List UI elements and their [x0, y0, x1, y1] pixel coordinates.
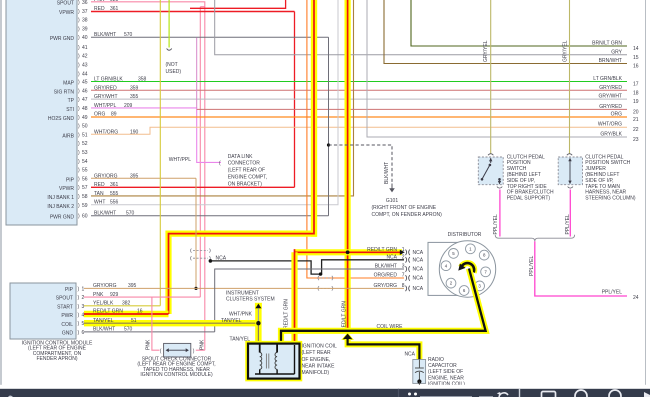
svg-text:VPWR: VPWR — [59, 186, 74, 192]
svg-text:GND: GND — [62, 331, 74, 337]
label ignition control module — [22, 341, 93, 363]
ECM pin 48 STI — [66, 103, 132, 113]
svg-text:52: 52 — [82, 141, 88, 147]
highlighted RED/LT GRN vertical A — [169, 0, 315, 314]
wire WHT/PNK vertical (highlighted) — [229, 308, 258, 323]
svg-text:MAP: MAP — [63, 81, 75, 87]
junction BLK/WHT at G101 tap — [327, 143, 330, 146]
svg-text:58: 58 — [82, 194, 88, 200]
ECM pin 54 — [78, 159, 88, 165]
svg-text:GRY/WHT: GRY/WHT — [598, 94, 622, 100]
svg-text:16: 16 — [137, 308, 143, 314]
clutch pedal position switch jumper box — [558, 157, 582, 185]
svg-text:GRY/YEL: GRY/YEL — [483, 40, 489, 62]
wire ORG 89 to pin 21 — [91, 116, 627, 118]
svg-text:(NOT: (NOT — [166, 62, 178, 68]
svg-text:(RIGHT FRONT OF ENGINE: (RIGHT FRONT OF ENGINE — [372, 205, 437, 211]
svg-text:51: 51 — [82, 132, 88, 138]
svg-text:ORG: ORG — [611, 112, 623, 118]
highlighted RED/LT GRN vertical B — [345, 0, 351, 333]
svg-text:CAPACITOR: CAPACITOR — [428, 363, 457, 369]
wire GRY/YEL right (clutch jumper) — [563, 0, 570, 154]
wire BLK/WHT ICM pin 6 — [84, 331, 215, 333]
right connector pin 24 — [633, 295, 639, 301]
junction GRY/ORG at ICM pin 1 — [194, 287, 197, 290]
label SPOUT check connector — [137, 356, 215, 378]
svg-text:SPOUT: SPOUT — [57, 1, 74, 7]
svg-text:53: 53 — [82, 150, 88, 156]
ECM pin 58 INJ BANK 1 — [47, 191, 118, 201]
svg-text:NCA: NCA — [413, 286, 424, 292]
wire WHT/ORG 190 to pin 22 — [91, 127, 627, 134]
right connector pin 18 GRY/RED — [599, 85, 638, 97]
svg-text:49: 49 — [82, 115, 88, 121]
svg-text:TP: TP — [68, 98, 75, 104]
ICM pin 3 START — [57, 301, 130, 311]
svg-text:PIP: PIP — [66, 177, 75, 183]
svg-text:(LEFT REAR OF: (LEFT REAR OF — [228, 168, 265, 174]
ECM pin 40 PWR GND — [50, 32, 133, 42]
svg-text:GRY/BLK: GRY/BLK — [600, 132, 622, 138]
ignition control module block — [10, 283, 76, 339]
svg-text:START: START — [57, 304, 73, 310]
coil wire connection arrow — [343, 334, 353, 340]
label DISTRIBUTOR — [448, 232, 482, 238]
wire RED 361 pin37 — [91, 0, 295, 187]
svg-text:15: 15 — [633, 55, 639, 61]
right connector pin 17 LT GRN/BLK — [593, 76, 638, 88]
svg-text:SPOUT: SPOUT — [56, 296, 73, 302]
wire WHT/PPL 209 to data link connector — [91, 38, 221, 163]
svg-text:COIL: COIL — [61, 322, 73, 328]
ICM pin 5 COIL (highlighted) — [61, 321, 84, 328]
ECM pin 38 — [78, 18, 88, 24]
data link connector label — [228, 154, 267, 188]
ECM pin 60 PWR GND — [50, 211, 135, 221]
clutch switch top lead-in arc — [488, 154, 493, 156]
wire PNK 929 from pin 36 — [91, 0, 205, 350]
svg-text:7: 7 — [402, 273, 405, 279]
wire ORG/RED vertical to distributor pin 7 — [307, 0, 404, 278]
wire GRY jog from pin40 line to pin 15 — [215, 0, 627, 55]
svg-text:38: 38 — [82, 18, 88, 24]
ignition coil (highlighted) — [248, 344, 300, 379]
ECM pin 46 SIG RTN — [54, 85, 139, 95]
svg-text:57: 57 — [82, 185, 88, 191]
left window edge line — [0, 0, 2, 386]
svg-text:51: 51 — [131, 318, 137, 324]
svg-text:GRY/ORG: GRY/ORG — [373, 283, 397, 289]
right connector pin 21 ORG — [611, 112, 639, 124]
right connector pin 15 GRY — [611, 49, 639, 61]
svg-text:BRN/LT GRN: BRN/LT GRN — [592, 41, 622, 47]
wire GRY/ORG to distributor pin 8 — [196, 287, 404, 289]
wire GRY/ORG ICM pin 1 — [84, 287, 196, 289]
wire PPL/YEL from jumper — [565, 190, 571, 237]
svg-text:929: 929 — [110, 0, 119, 3]
SPOUT check connector left lead — [146, 297, 162, 355]
svg-text:40: 40 — [82, 35, 88, 41]
ECM pin 59 INJ BANK 2 — [47, 200, 118, 210]
svg-text:42: 42 — [82, 54, 88, 60]
inline connector on PNK/GRY ORG verticals — [190, 249, 210, 261]
svg-text:41: 41 — [82, 45, 88, 51]
jumper top lead-in arc — [567, 154, 572, 156]
svg-text:VPWR: VPWR — [59, 10, 74, 16]
svg-text:INJ BANK 1: INJ BANK 1 — [47, 195, 74, 201]
svg-text:22: 22 — [633, 127, 639, 133]
wire GRY/WHT 355 to pin 19 — [91, 98, 627, 100]
svg-text:INJ BANK 2: INJ BANK 2 — [47, 204, 74, 210]
wire GRY/YEL left (clutch switch) — [483, 0, 491, 154]
right diagram edge line — [645, 0, 647, 386]
ICM pin 1 PIP — [65, 283, 137, 293]
wire WHT 556 pin 59 — [91, 0, 338, 205]
svg-text:(LEFT SIDE OF: (LEFT SIDE OF — [428, 369, 463, 375]
svg-text:ON BRACKET): ON BRACKET) — [228, 181, 263, 187]
svg-text:37: 37 — [82, 9, 88, 15]
ground G101 symbol — [389, 184, 395, 193]
svg-text:24: 24 — [633, 295, 639, 301]
svg-text:17: 17 — [633, 82, 639, 88]
svg-text:1: 1 — [82, 286, 85, 292]
instrument cluster arrow (highlighted) — [255, 303, 262, 309]
svg-text:21: 21 — [633, 117, 639, 123]
brace merging PPL/YEL wires — [495, 235, 574, 242]
ECM pin 57 VPWR — [59, 182, 119, 192]
svg-text:RADIO: RADIO — [428, 357, 444, 363]
svg-text:NCA: NCA — [413, 250, 424, 256]
svg-text:IGNITION CONTROL MODULE): IGNITION CONTROL MODULE) — [140, 372, 213, 378]
wire PNK branch vertical — [200, 7, 205, 297]
wire TAN 555 pin 58 — [91, 0, 354, 196]
wire RED 361 pin 57 — [91, 186, 295, 188]
wire GRY/RED 359 to pin 18 — [91, 89, 627, 91]
ECM pin 53 — [78, 150, 88, 156]
svg-text:DISTRIBUTOR: DISTRIBUTOR — [448, 232, 482, 238]
data link connector lead-in — [169, 157, 221, 167]
wire BLK/WHT 570 pin40 — [91, 36, 329, 38]
junction TAN/YEL — [256, 321, 260, 325]
svg-text:54: 54 — [82, 159, 88, 165]
distributor connector brackets and NCA labels — [406, 250, 410, 292]
svg-text:PWR: PWR — [61, 313, 73, 319]
wire BLK/WHT 570 pin 60 — [91, 215, 329, 217]
SPOUT check connector right lead — [193, 339, 206, 355]
wire YEL/BLK vertical (start circuit) — [159, 0, 161, 306]
svg-text:2: 2 — [402, 254, 405, 260]
svg-text:PWR GND: PWR GND — [50, 215, 75, 221]
wire GRY/BLK vertical to pin 23 — [367, 0, 627, 137]
svg-text:47: 47 — [82, 97, 88, 103]
svg-text:3: 3 — [402, 264, 405, 270]
junction RED/LT GRN at vertical B — [346, 250, 350, 254]
ECM pin 47 TP — [68, 94, 139, 104]
svg-text:PNK: PNK — [146, 339, 152, 350]
svg-text:20: 20 — [633, 109, 639, 115]
svg-text:ORG/RED: ORG/RED — [374, 273, 398, 279]
label instrument clusters system — [226, 291, 275, 303]
wire TAN/YEL 51 ICM pin 5 highlighted — [84, 318, 258, 324]
right connector pin 22 WHT/ORG — [598, 122, 639, 134]
clutch pedal position switch box — [478, 157, 503, 185]
wire YEL/BLK ICM pin 3 — [84, 305, 160, 307]
svg-text:GRY/YEL: GRY/YEL — [563, 40, 569, 62]
clutch switch symbol — [481, 158, 502, 185]
ICM pin 4 PWR (highlighted) — [61, 313, 84, 320]
wire GRY/RED to pin 20 — [197, 108, 627, 110]
svg-text:NCA: NCA — [413, 267, 424, 273]
svg-text:BRN/WHT: BRN/WHT — [599, 58, 622, 64]
dashed BLK/WHT to G101 — [329, 145, 393, 184]
svg-text:NCA: NCA — [413, 258, 424, 264]
coil wire diagonal (highlighted) — [281, 269, 486, 345]
wire LT GRN/BLK 358 to pin 17 — [91, 81, 627, 83]
svg-text:WHT/PNK: WHT/PNK — [229, 312, 253, 318]
svg-text:TAN/YEL: TAN/YEL — [221, 318, 242, 324]
wire PPL/YEL from clutch switch — [493, 190, 500, 237]
label RED/LT GRN vertical B — [342, 301, 348, 331]
distributor body — [428, 241, 496, 297]
ECM pin 55 — [78, 168, 88, 174]
svg-text:8: 8 — [402, 283, 405, 289]
svg-text:COIL WIRE: COIL WIRE — [377, 324, 404, 330]
svg-text:14: 14 — [633, 46, 639, 52]
ECM pin 49 HO2S GND — [48, 112, 117, 122]
svg-text:PPL/YEL: PPL/YEL — [565, 214, 571, 235]
svg-text:WHT/ORG: WHT/ORG — [598, 122, 622, 128]
svg-text:PNK: PNK — [199, 339, 205, 350]
svg-text:39: 39 — [82, 26, 88, 32]
wire LT GRN (not used) — [167, 0, 172, 50]
ECM pin 52 — [78, 141, 88, 147]
svg-text:G101: G101 — [386, 198, 398, 204]
svg-text:RED/LT GRN: RED/LT GRN — [93, 308, 123, 314]
wire GRY/ORG 395 pin 56 — [91, 177, 196, 179]
svg-text:FENDER APRON): FENDER APRON) — [36, 356, 77, 362]
label NCA radio capacitor — [404, 352, 415, 358]
ECM pin 41 — [78, 45, 88, 51]
svg-text:PNK: PNK — [94, 0, 105, 3]
ECM pin 44 — [78, 71, 88, 77]
SPOUT check connector body — [164, 343, 191, 357]
svg-text:MANIFOLD): MANIFOLD) — [302, 370, 330, 376]
ECM pin 50 — [78, 124, 88, 130]
ignition coil windings — [255, 345, 295, 375]
right connector pin 19 GRY/WHT — [598, 94, 638, 106]
svg-text:USED): USED) — [166, 69, 182, 75]
svg-text:16: 16 — [633, 64, 639, 70]
svg-text:PEDAL SUPPORT): PEDAL SUPPORT) — [507, 196, 551, 202]
highlighted RED/LT GRN vertical C to ignition coil — [284, 249, 295, 343]
svg-text:PPL/YEL: PPL/YEL — [493, 214, 499, 235]
svg-text:PWR GND: PWR GND — [50, 36, 75, 42]
right connector pin 23 GRY/BLK — [600, 132, 638, 144]
wire NCA black to distributor pin 2 — [210, 260, 404, 276]
svg-text:48: 48 — [82, 106, 88, 112]
svg-text:18: 18 — [633, 90, 639, 96]
label TAN/YEL at junction — [221, 318, 242, 324]
radio capacitor — [413, 360, 426, 387]
jumper bottom lead-out arc — [568, 187, 573, 189]
svg-text:HO2S GND: HO2S GND — [48, 116, 75, 122]
svg-text:56: 56 — [82, 176, 88, 182]
ECM pin 43 — [78, 63, 88, 69]
svg-text:STEERING COLUMN): STEERING COLUMN) — [585, 196, 636, 202]
svg-text:NCA: NCA — [404, 352, 415, 358]
highlighted RED/LT GRN horizontal to distributor pin 1 — [295, 250, 405, 255]
svg-text:55: 55 — [82, 168, 88, 174]
label (NOT USED) — [166, 62, 182, 75]
label COIL WIRE — [377, 324, 404, 330]
svg-text:DATA LINK: DATA LINK — [228, 154, 253, 160]
label G101 — [372, 198, 443, 218]
svg-text:23: 23 — [633, 137, 639, 143]
wire TAN/YEL down to ignition coil (highlighted) — [230, 323, 259, 343]
svg-text:19: 19 — [633, 99, 639, 105]
svg-text:SIG RTN: SIG RTN — [54, 89, 75, 95]
svg-text:ENGINE COMPT,: ENGINE COMPT, — [228, 175, 267, 181]
svg-text:46: 46 — [82, 88, 88, 94]
label RADIO CAPACITOR — [428, 357, 465, 388]
svg-text:ENGINE, NEAR: ENGINE, NEAR — [428, 375, 464, 381]
svg-text:COMPT, ON FENDER APRON): COMPT, ON FENDER APRON) — [372, 212, 443, 218]
svg-text:BLK/WHT: BLK/WHT — [375, 264, 397, 270]
svg-text:OF ENGINE,: OF ENGINE, — [302, 357, 331, 363]
wire BLK/WHT ground bus vertical — [328, 37, 330, 215]
svg-text:PPL/YEL: PPL/YEL — [529, 255, 535, 276]
svg-text:WHT/PPL: WHT/PPL — [169, 157, 191, 163]
wire NCA to radio capacitor (highlighted) — [348, 339, 420, 360]
svg-text:RED/LT GRN: RED/LT GRN — [342, 301, 348, 331]
wire BRN/WHT to pin 16 — [384, 0, 627, 64]
svg-text:GRY/RED: GRY/RED — [599, 104, 622, 110]
jumper wire symbol — [568, 158, 571, 184]
ECM pin 37 VPWR — [59, 6, 119, 16]
right connector pin 20 GRY/RED — [599, 104, 638, 116]
ICM pin 6 GND — [62, 327, 133, 337]
svg-text:IGNITION COIL: IGNITION COIL — [302, 344, 338, 350]
right connector pin 14 BRN/LT GRN — [592, 41, 639, 53]
labels NCA distributor connector — [413, 250, 424, 292]
svg-text:59: 59 — [82, 203, 88, 209]
taskbar — [0, 385, 650, 397]
svg-text:NEAR INTAKE: NEAR INTAKE — [302, 363, 336, 369]
label clutch pedal position switch jumper — [585, 154, 636, 201]
svg-text:RED/LT GRN: RED/LT GRN — [367, 247, 397, 253]
svg-text:2: 2 — [82, 295, 85, 301]
svg-text:50: 50 — [82, 124, 88, 130]
svg-text:CLUSTERS SYSTEM: CLUSTERS SYSTEM — [226, 296, 275, 302]
ECM pin 42 — [78, 54, 88, 60]
svg-text:44: 44 — [82, 71, 88, 77]
svg-text:RED/LT GRN: RED/LT GRN — [284, 299, 290, 329]
svg-text:LT GRN/BLK: LT GRN/BLK — [593, 76, 622, 82]
wire BLK/WHT to distributor pin 3 — [215, 269, 404, 332]
svg-text:GRY: GRY — [611, 49, 622, 55]
ECM connector block (PCM, left) — [6, 0, 77, 225]
distributor rotor (highlighted) — [458, 263, 474, 272]
svg-text:(LEFT REAR: (LEFT REAR — [302, 350, 331, 356]
svg-text:AIRB: AIRB — [62, 133, 74, 139]
svg-text:TAN/YEL: TAN/YEL — [93, 318, 114, 324]
right connector pin 16 BRN/WHT — [599, 58, 639, 70]
ECM pin 56 PIP — [66, 173, 139, 183]
ICM pin 2 SPOUT — [56, 292, 119, 302]
wire PPL/YEL to pin 24 — [529, 241, 627, 296]
wire GRY/ORG vertical to ICM pin 1 — [195, 178, 197, 288]
svg-text:45: 45 — [82, 80, 88, 86]
distributor tower numbers — [445, 246, 488, 293]
wire RED/LT GRN 16 ICM pin 4 highlighted — [84, 308, 169, 314]
svg-text:NCA: NCA — [386, 254, 397, 260]
svg-text:6: 6 — [82, 330, 85, 336]
svg-text:36: 36 — [82, 0, 88, 6]
clutch switch bottom lead-out arc — [497, 187, 502, 189]
svg-text:CONNECTOR: CONNECTOR — [228, 161, 261, 167]
svg-text:3: 3 — [82, 304, 85, 310]
wire BRN/LT GRN to pin 14 — [411, 0, 627, 46]
label clutch pedal position switch — [507, 154, 554, 201]
svg-text:PIP: PIP — [65, 287, 74, 293]
svg-text:STI: STI — [66, 107, 74, 113]
svg-text:60: 60 — [82, 214, 88, 220]
svg-text:PPL/YEL: PPL/YEL — [602, 290, 623, 296]
svg-text:43: 43 — [82, 63, 88, 69]
ECM pin 36 SPOUT — [57, 0, 88, 7]
ECM pin 45 MAP — [63, 77, 146, 87]
svg-text:GRY/RED: GRY/RED — [599, 85, 622, 91]
label ignition coil — [302, 344, 338, 376]
svg-text:1: 1 — [402, 247, 405, 253]
svg-text:NCA: NCA — [413, 276, 424, 282]
wire PNK ICM pin 2 — [84, 296, 200, 298]
node NCA splice — [209, 255, 227, 262]
distributor towers — [441, 244, 490, 295]
ECM pin 51 AIRB — [62, 129, 138, 139]
svg-text:BLK/WHT: BLK/WHT — [384, 162, 390, 184]
inline connector on ORG/RED + GRY/ORG — [318, 276, 333, 291]
ECM pin 39 — [78, 26, 88, 32]
distributor cap connector rows — [367, 247, 405, 289]
